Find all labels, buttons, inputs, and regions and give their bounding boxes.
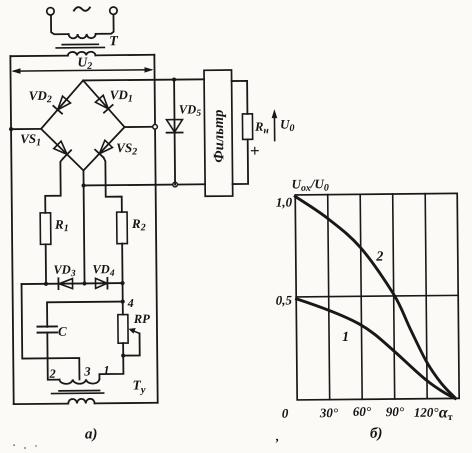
wire VD3 VD4 rail	[22, 282, 123, 285]
svg-text:C: C	[58, 324, 67, 339]
wire bridge ac left rail	[11, 128, 41, 130]
transformer Ty core	[52, 390, 104, 393]
svg-text:,: ,	[275, 429, 279, 444]
svg-text:4: 4	[127, 296, 134, 310]
voltage U0 arrow	[273, 114, 275, 141]
svg-text:RP: RP	[133, 312, 150, 326]
transformer Ty control winding	[59, 379, 99, 384]
svg-text:U2: U2	[77, 54, 92, 72]
gridline 30deg	[328, 195, 330, 400]
svg-text:1: 1	[342, 330, 349, 345]
wire box top edge left	[10, 55, 67, 58]
node junction R2 rail	[120, 281, 124, 285]
svg-text:60°: 60°	[353, 404, 372, 419]
wire R1 bottom	[45, 244, 47, 283]
gridline 0.5 level	[296, 295, 458, 297]
ac tilde symbol	[74, 7, 90, 11]
wire output bottom rail	[84, 184, 205, 185]
wire RP bottom	[122, 343, 124, 355]
wire VS1 gate to R1	[45, 158, 64, 212]
svg-text:VD4: VD4	[92, 262, 115, 279]
wire node4 to capacitor	[47, 302, 123, 327]
wire primary lead right	[95, 15, 113, 34]
wire bridge bottom corner down	[83, 170, 84, 283]
wire box top edge right	[95, 54, 154, 57]
node junction bottom rail	[81, 183, 85, 187]
graph frame	[295, 193, 459, 400]
svg-text:VS2: VS2	[116, 140, 137, 158]
terminal circle right edge	[153, 124, 158, 129]
transformer Ty primary winding	[68, 399, 94, 404]
node junction VD5 top	[172, 77, 176, 81]
node junction center rail	[82, 281, 86, 285]
curve 2	[295, 195, 455, 400]
ac source terminal left	[47, 8, 54, 15]
transformer T core	[56, 44, 104, 48]
resistor RH	[242, 114, 252, 140]
svg-text:2: 2	[48, 367, 55, 381]
wire box right edge	[154, 55, 157, 403]
wire R2 bottom	[121, 244, 123, 283]
svg-text:0,5: 0,5	[276, 292, 293, 307]
resistor R2	[117, 212, 128, 244]
wire rail left drop to terminal 3	[22, 284, 80, 380]
svg-text:R1: R1	[54, 217, 69, 235]
svg-text:3: 3	[83, 364, 90, 378]
svg-text:90°: 90°	[386, 404, 405, 419]
wire capacitor to terminal 2	[47, 332, 59, 379]
RP wiper arrow	[132, 330, 140, 333]
voltage U2 dimension arrow	[14, 70, 151, 71]
gridline 60deg	[360, 194, 362, 399]
speck marks	[13, 444, 15, 446]
svg-text:б): б)	[370, 426, 383, 442]
wire filter to load top	[232, 81, 248, 114]
svg-text:Uох/U0: Uох/U0	[292, 176, 329, 194]
diode VD4	[95, 278, 107, 288]
svg-text:VD2: VD2	[29, 88, 52, 106]
potentiometer RP	[122, 302, 124, 315]
node junction RP bottom	[121, 353, 125, 357]
wire primary lead left	[51, 15, 69, 34]
capacitor C	[37, 326, 57, 332]
svg-text:Фильтр: Фильтр	[211, 110, 228, 163]
resistor R1	[40, 213, 51, 245]
wire box left edge	[10, 56, 13, 404]
svg-text:R2: R2	[131, 216, 146, 234]
wire bridge ac right rail	[125, 126, 155, 128]
svg-text:120°: 120°	[414, 405, 440, 420]
svg-text:Tу: Tу	[132, 377, 145, 396]
node junction left edge	[9, 127, 13, 131]
svg-text:VD1: VD1	[110, 87, 133, 105]
diode VD5	[174, 80, 175, 185]
svg-text:αт: αт	[439, 404, 453, 423]
svg-text:Rн: Rн	[254, 120, 269, 137]
thyristor VS2	[99, 140, 112, 154]
wire VS2 gate to R2	[104, 157, 122, 212]
svg-text:1: 1	[103, 363, 109, 377]
svg-text:30°: 30°	[319, 405, 339, 420]
svg-text:+: +	[250, 141, 260, 160]
svg-text:U0: U0	[280, 116, 295, 134]
wire box bottom edge left	[14, 403, 68, 406]
terminal circle bottom rail	[173, 182, 178, 187]
wire node4 drop	[122, 283, 124, 301]
diode VD1	[95, 95, 108, 109]
ac source terminal right	[110, 7, 117, 14]
diode VD3	[59, 279, 72, 289]
svg-text:VD3: VD3	[53, 263, 76, 280]
node junction R1 rail	[44, 282, 48, 286]
wire box bottom edge right	[95, 402, 158, 405]
gridline 120deg	[425, 194, 427, 399]
transformer T primary winding	[69, 34, 96, 39]
curve 1	[297, 297, 456, 400]
gridline 90deg	[393, 194, 395, 399]
svg-text:1,0: 1,0	[276, 194, 293, 209]
thyristor VS1	[54, 141, 67, 154]
svg-text:а): а)	[85, 426, 98, 442]
svg-text:VD5: VD5	[179, 102, 202, 119]
svg-text:0: 0	[282, 406, 289, 421]
wire load bottom to filter	[232, 139, 248, 184]
wire terminal 1	[99, 356, 123, 380]
wire wiper to RP bottom	[123, 333, 140, 355]
svg-text:T: T	[109, 34, 119, 49]
transformer T secondary winding	[68, 52, 96, 56]
svg-text:2: 2	[375, 250, 383, 265]
diode VD2	[58, 96, 71, 110]
wire bridge top corner to output rail	[83, 79, 204, 80]
node 4 junction	[121, 299, 125, 303]
svg-text:VS1: VS1	[20, 131, 41, 149]
filter block	[204, 70, 233, 196]
bridge diamond wires	[41, 80, 125, 171]
